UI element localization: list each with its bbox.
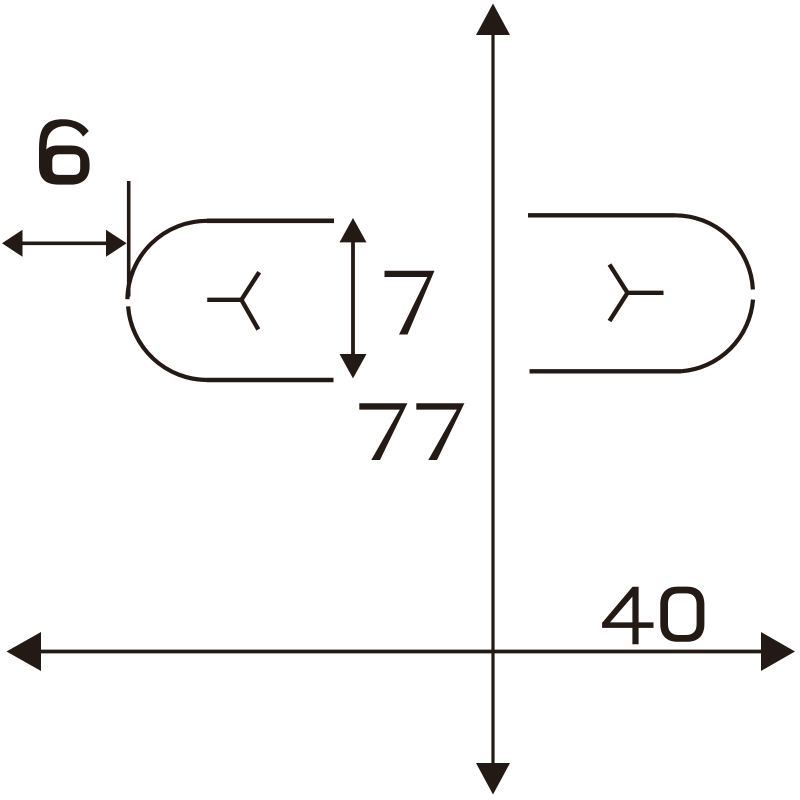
horizontal axis left arrowhead bbox=[7, 632, 42, 671]
label 40 digit 0 bbox=[660, 587, 704, 642]
vertical axis bottom arrowhead bbox=[476, 763, 510, 795]
label 40 digit 4 bbox=[602, 587, 653, 645]
vertical axis line bbox=[491, 30, 494, 768]
left slot top line bbox=[207, 219, 334, 224]
vertical axis top arrowhead bbox=[476, 4, 510, 36]
dimension 7 bottom arrowhead bbox=[340, 354, 367, 378]
right slot bottom line bbox=[530, 369, 682, 373]
dimension 7 arrow line bbox=[351, 232, 355, 365]
left slot Y mark bbox=[207, 272, 259, 329]
label 77 first digit bbox=[359, 403, 407, 460]
left slot cap lower arc bbox=[128, 306, 207, 380]
left slot bottom line bbox=[207, 378, 334, 383]
dimension 6 arrow line bbox=[18, 242, 112, 246]
horizontal axis line bbox=[35, 650, 765, 654]
label 77 second digit bbox=[416, 403, 464, 460]
left slot cap upper arc bbox=[127, 221, 207, 299]
dimension 6 extension line bbox=[127, 181, 131, 297]
horizontal axis right arrowhead bbox=[761, 632, 795, 671]
right slot top line bbox=[528, 213, 675, 217]
dimension 7 top arrowhead bbox=[340, 218, 367, 242]
label 6 bbox=[39, 119, 90, 184]
dimension 6 left arrowhead bbox=[2, 230, 23, 257]
dimension 6 right arrowhead bbox=[106, 230, 127, 257]
right slot cap upper arc bbox=[675, 215, 753, 289]
right slot Y mark bbox=[610, 265, 664, 322]
right slot cap lower arc bbox=[681, 300, 753, 372]
label 7 (vertical dim) bbox=[385, 271, 435, 335]
